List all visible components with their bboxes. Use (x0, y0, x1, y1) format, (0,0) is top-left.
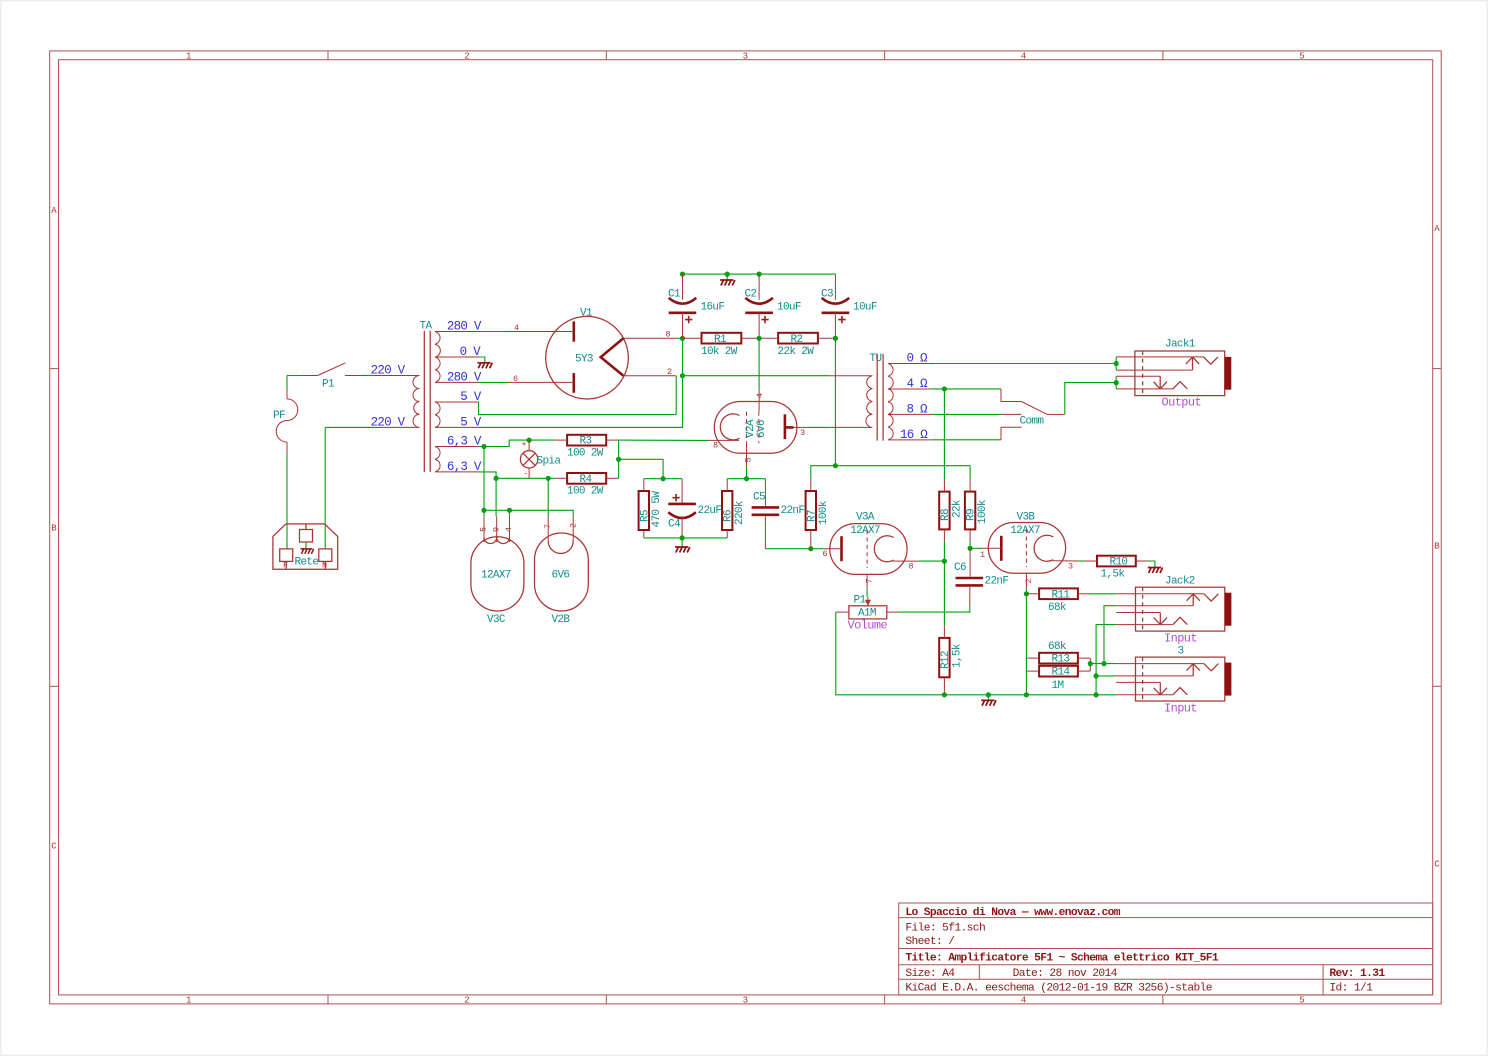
wire 6,3V bottom jog (479, 472, 497, 478)
svg-text:1: 1 (186, 996, 191, 1006)
svg-text:Volume: Volume (848, 618, 888, 632)
svg-text:8: 8 (666, 330, 671, 340)
svg-text:220k: 220k (734, 500, 746, 525)
wire 16 ohm (931, 439, 1001, 441)
svg-text:6V6: 6V6 (552, 570, 570, 582)
node V2A pin5 (744, 476, 749, 481)
svg-text:6,3 V: 6,3 V (447, 435, 482, 449)
wire R7 top to screen rail (811, 466, 970, 479)
svg-text:2: 2 (568, 523, 578, 528)
node Spia plus (527, 438, 532, 443)
resistor R8 (939, 480, 963, 541)
wire Jack3 switch (1096, 675, 1116, 677)
svg-text:0 Ω: 0 Ω (907, 352, 929, 366)
svg-text:C5: C5 (753, 491, 765, 503)
svg-text:22uF: 22uF (698, 505, 722, 517)
wire Comm to Jack1 (1065, 383, 1116, 415)
wire Jack2 switch down to Jack3 tip (1104, 606, 1116, 664)
svg-text:Input: Input (1164, 702, 1197, 716)
resistor R14 (1026, 666, 1090, 692)
node C4 bottom (680, 535, 685, 540)
TA secondary 280-0-280 (435, 332, 479, 383)
svg-text:R10: R10 (1110, 557, 1128, 569)
resistor R4 (555, 473, 619, 498)
svg-text:22k 2W: 22k 2W (778, 346, 815, 358)
node Jack3 switch (1094, 673, 1099, 678)
node R7 bottom / V3A pin6 (808, 546, 813, 551)
svg-text:Output: Output (1162, 396, 1202, 410)
node R3/R4 link (616, 457, 621, 462)
svg-text:1M: 1M (1052, 680, 1064, 692)
wire V3A pin8 to node (919, 560, 945, 562)
top rail wire (683, 273, 836, 275)
wire gnd stem (681, 538, 683, 547)
svg-text:Input: Input (1164, 631, 1197, 645)
svg-text:100k: 100k (818, 500, 830, 525)
node Jack1 tip (1114, 361, 1119, 366)
V1 pin 8 (623, 337, 676, 339)
svg-text:R9: R9 (966, 509, 978, 521)
wire 0V to ground (479, 357, 485, 362)
wire P1 right to TA (362, 375, 373, 377)
svg-text:16 Ω: 16 Ω (900, 428, 928, 442)
svg-text:R1: R1 (714, 334, 727, 346)
svg-text:5Y3: 5Y3 (575, 353, 593, 365)
wire V3C pin4 drop (509, 510, 511, 516)
wire C5 bottom to V3A grid row (765, 548, 810, 550)
V3A grid dashed (866, 530, 868, 568)
wire V1 pin8 to node (676, 337, 682, 339)
Jack1 sleeve switch pin (1116, 375, 1160, 377)
svg-text:F: F (283, 561, 288, 571)
svg-text:8: 8 (909, 561, 914, 571)
svg-text:8 Ω: 8 Ω (907, 403, 929, 417)
wire cathode node to R5 (644, 478, 663, 480)
svg-text:Jack2: Jack2 (1165, 576, 1195, 588)
Jack2 sleeve switch pin (1116, 612, 1160, 614)
wire V3C pin5 drop (483, 510, 485, 516)
svg-text:4: 4 (514, 323, 519, 333)
svg-text:P1: P1 (322, 379, 335, 391)
wire R5/C4/R6 ground row (644, 537, 727, 539)
resistor R7 (806, 479, 830, 549)
svg-text:Lo Spaccio di Nova — www.enova: Lo Spaccio di Nova — www.enovaz.com (905, 907, 1120, 919)
svg-text:2: 2 (1024, 579, 1034, 584)
svg-text:6,3 V: 6,3 V (447, 460, 482, 474)
V3B plate bar (1000, 536, 1003, 561)
svg-text:KiCad E.D.A. eeschema (2012-0: KiCad E.D.A. eeschema (2012-01-19 BZR 32… (905, 983, 1212, 995)
svg-text:12AX7: 12AX7 (1010, 525, 1040, 537)
resistor R11 (1026, 588, 1088, 613)
svg-text:5: 5 (479, 527, 489, 532)
svg-text:V1: V1 (580, 308, 593, 320)
svg-text:N: N (322, 561, 327, 571)
node C1 top (680, 272, 685, 277)
V3B pin 3 (1053, 560, 1079, 562)
node Jack3 tip / Jack2 switch (1101, 661, 1106, 666)
svg-text:68k: 68k (1048, 602, 1067, 614)
wire fuse to connector F (286, 452, 288, 549)
svg-text:V3B: V3B (1017, 512, 1036, 524)
svg-text:R5: R5 (639, 510, 651, 522)
svg-text:4: 4 (1021, 52, 1026, 62)
P1 wiper arrow (867, 597, 869, 602)
svg-text:3: 3 (1068, 561, 1073, 571)
svg-text:100 2W: 100 2W (567, 486, 604, 498)
wire node down to V2A pin4 (758, 338, 760, 389)
Jack2 sleeve break contact (1173, 617, 1187, 624)
tube V1 (5Y3 rectifier) (510, 308, 677, 399)
TA secondary 5V (435, 402, 479, 427)
V3B grid dashed (1025, 529, 1027, 567)
svg-text:10uF: 10uF (777, 302, 801, 314)
resistor R10 (1085, 556, 1148, 581)
wire R3/R4 right link (618, 440, 620, 478)
TU primary winding (829, 376, 872, 428)
node V3B grid / R11 (1024, 591, 1029, 596)
svg-text:Spia: Spia (537, 455, 562, 467)
svg-text:Jack1: Jack1 (1165, 339, 1196, 351)
wire B+ drop to screen rail (834, 338, 836, 465)
svg-text:A: A (51, 206, 57, 216)
svg-text:1: 1 (186, 52, 191, 62)
ground (bus) (981, 700, 996, 706)
node 6,3V top (481, 444, 486, 449)
wire 8 ohm (931, 413, 1001, 415)
node pin2/B+ (680, 373, 685, 378)
switch Comm (1001, 389, 1065, 440)
wire node to node (682, 338, 684, 375)
V2A pin 5 (746, 443, 748, 466)
Jack3 sleeve break contact (1173, 688, 1187, 695)
wire 6,3V top to R3 row (479, 440, 555, 446)
wire 220V bottom corner (325, 426, 373, 428)
V3A cathode arc (874, 536, 893, 562)
svg-text:4: 4 (755, 393, 765, 398)
svg-text:R2: R2 (791, 334, 803, 346)
svg-text:22k: 22k (951, 499, 963, 518)
Jack3 sleeve arrow (1154, 682, 1167, 694)
Jack1 sleeve break contact (1173, 382, 1187, 389)
V2A pin 4 (758, 389, 760, 411)
wire P1 right to C6 (898, 605, 970, 612)
transformer TU (829, 353, 931, 441)
svg-text:R3: R3 (580, 436, 592, 448)
Jack1 tip pin (1116, 356, 1203, 358)
jack Jack2 (1116, 576, 1231, 658)
svg-text:10k 2W: 10k 2W (701, 346, 738, 358)
Jack2 sleeve pin (1116, 624, 1173, 626)
svg-text:16uF: 16uF (701, 302, 725, 314)
wire 280V bottom to V1 pin6 (479, 381, 510, 383)
wire 5V top jog (479, 402, 677, 415)
svg-text:8: 8 (713, 441, 718, 451)
V2A pin 8 (708, 439, 739, 441)
svg-text:C6: C6 (954, 562, 966, 574)
capacitor C6 (954, 548, 1008, 605)
heater bus wire (484, 510, 573, 516)
svg-text:File: 5f1.sch: File: 5f1.sch (905, 922, 985, 934)
svg-text:6V6: 6V6 (756, 420, 768, 438)
wire link to cathode node (619, 459, 664, 478)
tube V3B (12AX7 b) (970, 512, 1079, 590)
svg-text:R4: R4 (580, 474, 593, 486)
Jack3 sleeve switch pin (1116, 681, 1160, 683)
svg-text:4: 4 (1021, 996, 1026, 1006)
Jack3 sleeve pin (1116, 694, 1173, 696)
resistor R1 (683, 333, 760, 358)
ground (top rail) (720, 280, 735, 286)
wire V2A plate to OT (808, 426, 830, 428)
resistor R3 (555, 435, 619, 460)
Jack2 tip pin (1116, 593, 1204, 595)
resistor R5 (639, 479, 663, 538)
capacitor C1 (668, 274, 724, 338)
node pin8/C1/R1 (680, 336, 685, 341)
TA primary winding (373, 376, 419, 428)
node heater bus / V3C pin5 (481, 508, 486, 513)
wire gnd stem (987, 695, 989, 700)
svg-text:Date: 28 nov 2014: Date: 28 nov 2014 (1013, 968, 1118, 980)
Jack3 tip switch pin (1116, 675, 1193, 677)
V3A plate bar (840, 536, 843, 561)
potentiometer P1 (Volume) (836, 595, 898, 633)
node R13/R14 (1088, 661, 1093, 666)
lamp Spia (520, 439, 561, 478)
fuse PF (273, 389, 298, 453)
svg-text:470 5W: 470 5W (651, 491, 663, 528)
node bus / grid column (1024, 692, 1029, 697)
resistor R2 (759, 333, 835, 358)
node gnd top (725, 272, 730, 277)
wire down to connector N (324, 427, 326, 549)
wire V3B grid down (1025, 589, 1027, 695)
svg-text:V3A: V3A (856, 512, 875, 524)
P1 left pin (836, 611, 849, 613)
V1 cathode chevron (601, 338, 624, 375)
svg-text:R13: R13 (1052, 654, 1070, 666)
V1 pin 4 (510, 331, 574, 333)
ground (C4) (675, 547, 690, 553)
wire 6,3V top down to heater bus (483, 447, 485, 511)
resistor R12 (939, 626, 963, 695)
wire gnd stem (726, 274, 728, 279)
svg-text:Comm: Comm (1020, 416, 1045, 428)
svg-text:2: 2 (464, 52, 469, 62)
V3A pin 8 (893, 560, 918, 562)
tube V2A (6V6 power) (708, 389, 808, 466)
svg-text:R6: R6 (723, 510, 735, 522)
svg-text:5: 5 (1299, 52, 1304, 62)
svg-text:R8: R8 (940, 509, 952, 521)
svg-text:C: C (51, 841, 57, 851)
V1 anode plate top (572, 321, 575, 341)
svg-text:1,5k: 1,5k (951, 643, 963, 668)
wire V3B pin3 to R10 (1079, 560, 1085, 562)
node R2/C3/B+ drop (833, 336, 838, 341)
wire R3 to V2A pin8 (619, 439, 709, 441)
svg-text:22nF: 22nF (781, 505, 805, 517)
svg-text:5: 5 (744, 458, 754, 463)
V2A cathode arc (720, 414, 739, 440)
V2A plate lead (785, 426, 794, 429)
node V3A cathode / R8 / R12 (942, 559, 947, 564)
node R4 row / V2B pin7 (546, 476, 551, 481)
svg-text:2: 2 (464, 996, 469, 1006)
Jack3 tip break contact (1204, 664, 1219, 671)
svg-text:68k: 68k (1048, 641, 1067, 653)
svg-text:10uF: 10uF (853, 302, 877, 314)
node Jack1 sleeve (1114, 380, 1119, 385)
V3B pin 2 (1025, 573, 1027, 589)
wire Jack2 sleeve down to bus (1096, 625, 1116, 695)
svg-text:PF: PF (273, 410, 285, 422)
wire R8 top column (943, 389, 945, 480)
svg-text:7: 7 (865, 579, 875, 584)
wire 0 ohm to Jack1 (931, 363, 1116, 365)
svg-text:B: B (1434, 542, 1440, 552)
capacitor C5 (752, 479, 805, 549)
node R9 bottom / C6 / V3B grid (968, 546, 973, 551)
connector Rete (mains socket) (273, 524, 338, 571)
capacitor C3 (821, 274, 877, 338)
ground (R10) (1148, 568, 1163, 574)
Jack2 tip arrow (1187, 594, 1200, 606)
TA core (423, 331, 425, 472)
svg-text:P1: P1 (854, 595, 867, 607)
node 4 ohm / R8 (942, 386, 947, 391)
resistor R9 (965, 480, 989, 549)
svg-text:3: 3 (743, 52, 748, 62)
wire R8 bottom to cathode node (943, 541, 945, 561)
bottom bus wire (944, 694, 1116, 696)
node cathode (661, 476, 666, 481)
svg-text:Size: A4: Size: A4 (905, 968, 955, 980)
svg-text:4: 4 (504, 527, 514, 532)
svg-text:4 Ω: 4 Ω (907, 377, 929, 391)
svg-text:1,5k: 1,5k (1101, 569, 1126, 581)
resistor R13 (1026, 641, 1090, 666)
wire V2B pin7 drop (547, 478, 549, 516)
wire P1 left down to bus (836, 612, 945, 695)
svg-text:22nF: 22nF (985, 576, 1009, 588)
resistor R6 (722, 479, 746, 538)
jack Jack3 (1116, 657, 1231, 716)
node R12 bottom (942, 692, 947, 697)
svg-text:Title: Amplificatore 5F1 ~ Sch: Title: Amplificatore 5F1 ~ Schema elettr… (905, 953, 1218, 965)
Jack2 tip switch pin (1116, 605, 1193, 607)
svg-text:R14: R14 (1052, 667, 1071, 679)
svg-text:R7: R7 (806, 510, 818, 522)
svg-text:12AX7: 12AX7 (850, 525, 880, 537)
ground (Rete) (301, 549, 314, 554)
node bus / Jack2 sleeve column (1094, 692, 1099, 697)
V2A screen dashed (758, 412, 760, 444)
svg-text:Rete: Rete (295, 557, 319, 569)
jack Jack1 (1116, 339, 1231, 410)
V3B pin 1 (970, 547, 982, 549)
capacitor C2 (745, 274, 801, 338)
svg-text:1: 1 (980, 550, 985, 560)
V3B cathode arc (1034, 535, 1053, 561)
svg-text:C4: C4 (668, 519, 681, 531)
wire 280V top to V1 pin4 (479, 331, 510, 333)
svg-text:100 2W: 100 2W (567, 448, 604, 460)
svg-text:2: 2 (667, 367, 672, 377)
V2A plate bar (784, 414, 787, 439)
Jack2 tip break contact (1204, 594, 1219, 601)
node screen rail / B+ (833, 463, 838, 468)
wire R11 to Jack2 tip (1089, 593, 1117, 595)
TU core (876, 354, 878, 441)
wire P1 left (287, 375, 300, 377)
ground (0V) (478, 363, 493, 369)
Jack1 sleeve arrow (1154, 376, 1167, 389)
svg-text:3: 3 (743, 996, 748, 1006)
wire B+ node to OT primary (683, 375, 830, 377)
wire 5V bottom to B+ column (479, 376, 683, 428)
svg-text:6: 6 (513, 374, 518, 384)
wire from P1 down to fuse (286, 376, 288, 389)
capacitor C4 (668, 479, 721, 538)
Jack2 sleeve arrow (1154, 613, 1167, 625)
TU secondary winding (888, 364, 931, 440)
svg-text:Id: 1/1: Id: 1/1 (1329, 983, 1373, 995)
svg-text:3: 3 (800, 428, 805, 438)
svg-text:-: - (523, 469, 528, 479)
title block (899, 903, 1433, 995)
svg-text:3: 3 (1178, 646, 1184, 658)
wire cathode node down to R12 (943, 561, 945, 626)
V1 pin 6 (510, 381, 574, 383)
wire R4 row (496, 477, 555, 479)
svg-text:+: + (522, 439, 527, 449)
tube V2B (6V6 heater) (535, 516, 589, 626)
svg-text:100k: 100k (977, 499, 989, 524)
node bus ground (986, 692, 991, 697)
wire cathode node to C4 (663, 478, 682, 480)
wire V2A pin5 drop (746, 466, 748, 479)
wire 4 ohm (931, 388, 1001, 390)
wire 5V top up to V1 pin2 (675, 376, 677, 415)
V3A pin 7 (866, 574, 868, 588)
node C2 top (757, 272, 762, 277)
tube V3C (12AX7 heater) (471, 516, 524, 626)
svg-text:0 V: 0 V (460, 345, 482, 359)
svg-text:5: 5 (1299, 996, 1304, 1006)
node 6,3V bottom (494, 476, 499, 481)
V3A pin 6 (811, 548, 823, 550)
V1 pin 2 (623, 375, 676, 377)
V2A grid dashed (746, 412, 748, 444)
svg-text:7: 7 (543, 524, 553, 529)
Jack1 sleeve pin (1116, 388, 1173, 390)
svg-text:6: 6 (823, 549, 828, 559)
svg-text:A: A (1434, 224, 1440, 234)
svg-text:V3C: V3C (487, 614, 506, 626)
wire V3C pin9 drop (495, 478, 497, 516)
svg-text:B: B (51, 524, 57, 534)
Jack3 tip pin (1116, 663, 1204, 665)
wire R10 right to ground (1148, 561, 1155, 567)
Jack1 tip break contact (1204, 357, 1219, 364)
tube V3A (12AX7 a) (811, 512, 919, 589)
svg-text:12AX7: 12AX7 (481, 570, 511, 582)
svg-text:9: 9 (491, 527, 501, 532)
svg-text:280 V: 280 V (447, 371, 482, 385)
node heater bus / V3C pin4 (507, 508, 512, 513)
svg-text:TA: TA (420, 320, 433, 332)
